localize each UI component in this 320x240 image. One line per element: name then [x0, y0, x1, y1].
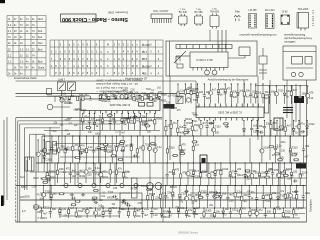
capacitor C302 — [88, 113, 91, 130]
svg-text:2,2u: 2,2u — [128, 92, 133, 95]
resistor R336 — [284, 120, 286, 136]
resistor R440 — [284, 185, 286, 208]
svg-text:T310: T310 — [278, 89, 284, 92]
transistor T450 — [93, 207, 97, 218]
resistor R343 and capacitor C343 — [196, 83, 199, 103]
svg-text:100n: 100n — [305, 192, 311, 195]
resistor R475 and capacitor C475 — [68, 96, 71, 101]
svg-text:VALP: VALP — [33, 177, 39, 180]
svg-text:2,2u: 2,2u — [88, 146, 93, 149]
svg-text:Bod: Bod — [38, 59, 43, 63]
svg-text:470: 470 — [102, 170, 107, 173]
svg-text:4u7: 4u7 — [144, 214, 149, 217]
resistor R521 — [75, 200, 81, 202]
resistor R555 — [280, 172, 286, 174]
resistor R416 and capacitor C416 — [290, 162, 293, 185]
svg-text:L12: L12 — [153, 214, 158, 217]
capacitor C361 — [50, 135, 53, 163]
resistor R551 — [283, 174, 289, 176]
tall filter block — [46, 142, 57, 155]
resistor R372 — [122, 135, 124, 163]
resistor R508 — [291, 154, 297, 156]
capacitor C398 — [166, 162, 169, 185]
capacitor C370 — [111, 135, 114, 163]
svg-text:47u: 47u — [188, 209, 193, 212]
svg-text:1k5: 1k5 — [53, 193, 58, 196]
svg-text:Abgleich nur mit Messsender u.: Abgleich nur mit Messsender u. Zähler — [96, 79, 142, 83]
capacitor C393 — [92, 162, 95, 183]
resistor R505 — [269, 146, 275, 148]
svg-text:T320: T320 — [192, 113, 198, 115]
capacitor C432 — [226, 185, 229, 208]
svg-text:GRUNDIG Service: GRUNDIG Service — [178, 232, 199, 235]
capacitor C541 — [186, 130, 190, 133]
wire horizontal bus lines — [16, 80, 197, 82]
svg-text:T310: T310 — [285, 210, 291, 213]
capacitor C529 — [92, 198, 96, 201]
loudspeaker pair LS1 LS2 — [120, 183, 162, 209]
resistor R422 — [159, 185, 161, 208]
resistor R484 — [141, 96, 143, 101]
svg-text:C35: C35 — [32, 187, 37, 189]
svg-text:2,2u: 2,2u — [61, 208, 66, 211]
capacitor C528 — [126, 204, 130, 207]
capacitor C457 — [150, 207, 153, 218]
test point arrow in block — [174, 51, 186, 68]
svg-text:L12: L12 — [72, 175, 77, 178]
svg-text:Ersatzteilliste Radio: Ersatzteilliste Radio — [14, 76, 37, 80]
capacitor C556 — [293, 180, 297, 183]
svg-text:IC 820 U 1705: IC 820 U 1705 — [196, 58, 213, 62]
capacitor C526 — [121, 201, 125, 204]
capacitor C488 — [133, 154, 137, 157]
svg-text:LM 358: LM 358 — [249, 9, 258, 12]
capacitor C516 — [81, 193, 85, 196]
vertical resistor array — [265, 95, 269, 113]
resistor R406 — [220, 162, 222, 185]
registration mark top-left corner — [0, 0, 5, 3]
resistor R532 — [144, 125, 150, 127]
resistor R380 — [192, 135, 194, 163]
svg-text:Fed: Fed — [38, 35, 43, 39]
resistor R310 — [139, 113, 141, 130]
capacitor C539 — [225, 125, 229, 128]
mains transformer TR1 — [25, 157, 34, 171]
svg-text:220: 220 — [78, 216, 83, 219]
capacitor C335 — [275, 120, 278, 136]
resistor R309 — [134, 113, 136, 130]
capacitor C445 — [49, 207, 52, 218]
svg-text:BF324: BF324 — [131, 189, 138, 191]
svg-text:Schaltplan: Schaltplan — [309, 199, 313, 212]
svg-text:220V: 220V — [20, 196, 26, 199]
svg-text:von Bestückungsseite gesehen: von Bestückungsseite gesehen — [239, 33, 277, 37]
svg-text:4n7: 4n7 — [293, 89, 298, 92]
capacitor C436 — [255, 185, 258, 208]
svg-text:47u: 47u — [118, 168, 123, 171]
svg-text:L12: L12 — [253, 177, 258, 180]
resistor R506 — [293, 159, 299, 161]
resistor R519 — [71, 204, 77, 206]
resistor R438 — [270, 185, 272, 208]
svg-text:C312: C312 — [222, 168, 229, 171]
transistor T318 — [131, 94, 135, 99]
transistor T404 — [207, 162, 211, 185]
svg-text:1k5: 1k5 — [222, 192, 227, 195]
svg-text:Filter: Filter — [235, 11, 241, 14]
capacitor C311 — [145, 113, 148, 130]
svg-text:100n: 100n — [95, 133, 101, 135]
svg-text:100n: 100n — [180, 207, 186, 210]
svg-text:47u: 47u — [258, 209, 263, 212]
right caption text — [284, 33, 312, 44]
svg-text:T310: T310 — [215, 126, 221, 129]
diode D386 — [43, 139, 46, 172]
svg-text:47u: 47u — [81, 145, 86, 148]
capacitor C408 — [234, 162, 237, 185]
diode D412 — [265, 162, 268, 185]
svg-text:T320: T320 — [73, 110, 79, 112]
connector strip with sockets — [60, 178, 145, 198]
tuning trimmer assembly — [58, 82, 76, 97]
voltage regulator stage — [259, 48, 267, 80]
resistor R350 — [243, 83, 245, 103]
capacitor C474 — [59, 96, 62, 100]
svg-text:M: M — [132, 65, 134, 68]
resistor R473 — [293, 207, 295, 218]
resistor R500 — [79, 149, 85, 151]
resistor R301 — [82, 113, 84, 130]
resistor R490 — [119, 143, 125, 145]
diode D486 — [158, 96, 161, 100]
svg-text:C312: C312 — [309, 123, 316, 126]
resistor R417 — [299, 162, 301, 185]
resistor R362 — [58, 135, 60, 163]
capacitor C358 — [299, 85, 302, 104]
svg-text:R305: R305 — [205, 210, 212, 213]
resistor R513 — [214, 195, 220, 197]
resistor R400 — [180, 162, 182, 185]
svg-text:220: 220 — [179, 96, 184, 99]
transistor T426 — [184, 185, 188, 208]
resistor R463 — [203, 207, 205, 218]
svg-text:4u7: 4u7 — [210, 177, 215, 180]
svg-text:C35: C35 — [138, 203, 143, 205]
wire vertical bus lines — [4, 30, 300, 222]
diode D339 — [306, 120, 309, 136]
diode D458 — [160, 207, 163, 218]
resistor R512 — [146, 189, 152, 191]
resistor R504 — [172, 154, 178, 156]
svg-text:T310: T310 — [111, 207, 117, 210]
resistor R485 — [150, 96, 152, 101]
capacitor C382 — [274, 135, 277, 163]
resistor R427 — [192, 185, 194, 208]
capacitor C549 — [47, 179, 51, 182]
svg-text:2,2: 2,2 — [8, 23, 12, 27]
resistor R498 — [111, 155, 117, 157]
svg-text:470: 470 — [309, 91, 314, 94]
svg-text:Bod: Bod — [38, 47, 43, 51]
resistor R317 — [127, 93, 129, 99]
capacitor C552 — [244, 175, 248, 178]
transistor T360 — [43, 135, 47, 163]
resistor R550 — [42, 181, 48, 183]
svg-text:100n: 100n — [192, 121, 198, 123]
transistor T392 — [84, 162, 88, 183]
svg-text:330: 330 — [91, 117, 96, 120]
dark label T315 — [164, 104, 175, 109]
resistor R425 and capacitor C425 — [178, 185, 181, 208]
transistor T327 — [199, 120, 203, 136]
ceramic filter FT1 — [234, 15, 240, 21]
resistor R407 and capacitor C407 — [229, 162, 232, 185]
resistor R324 — [177, 120, 179, 136]
transistor T394 — [99, 162, 103, 183]
resistor R307 and capacitor C307 — [120, 113, 123, 130]
svg-text:Netz: Netz — [20, 176, 26, 179]
capacitor C423 — [164, 185, 167, 208]
transistor T359 — [306, 85, 310, 104]
resistor R487 — [100, 148, 106, 150]
capacitor C523 — [214, 191, 218, 194]
capacitor C368 — [97, 135, 100, 163]
svg-text:220: 220 — [87, 173, 92, 176]
svg-text:2x 000: 2x 000 — [142, 64, 150, 68]
resistor R323 — [170, 120, 172, 136]
resistor R341 — [184, 83, 186, 103]
capacitor C331 — [250, 120, 253, 136]
resistor R454 — [127, 207, 129, 218]
capacitor C524 — [294, 190, 298, 193]
capacitor C332 — [256, 120, 259, 136]
diode D303 — [93, 113, 96, 130]
resistor R497 — [74, 157, 80, 159]
svg-text:C35: C35 — [166, 103, 171, 105]
svg-text:220: 220 — [229, 200, 234, 203]
transistor T430 — [213, 185, 217, 208]
capacitor C390 — [69, 162, 72, 183]
resistor R312 — [154, 113, 156, 130]
svg-text:C35: C35 — [269, 169, 274, 171]
capacitor C466 — [229, 207, 232, 218]
transistor T381 — [260, 135, 264, 163]
resistor R535 — [107, 114, 113, 116]
resistor R468 — [249, 207, 251, 218]
resistor R348 and capacitor C348 — [230, 83, 233, 103]
diode D356 — [283, 85, 286, 104]
clock module block U820 — [166, 30, 257, 76]
svg-text:L12: L12 — [309, 97, 314, 100]
tuner IC U350 — [81, 99, 160, 114]
resistor R433 — [234, 185, 236, 208]
resistor R369 and capacitor C369 — [104, 135, 107, 163]
capacitor C354 — [268, 85, 271, 104]
svg-text:L12: L12 — [135, 100, 140, 103]
svg-text:2,2: 2,2 — [20, 59, 24, 63]
diode D349 — [237, 83, 240, 103]
resistor R548 — [41, 178, 47, 180]
svg-text:Fed: Fed — [38, 29, 43, 33]
svg-text:470: 470 — [96, 119, 101, 122]
capacitor C510 — [70, 193, 74, 196]
svg-text:IC 350 TDA 4100: IC 350 TDA 4100 — [109, 103, 130, 107]
svg-text:BF324: BF324 — [190, 91, 197, 93]
svg-text:10,7: 10,7 — [142, 50, 148, 54]
svg-text:330: 330 — [293, 171, 298, 174]
svg-text:T310: T310 — [169, 147, 175, 150]
capacitor C435 — [248, 185, 251, 208]
resistor R452 and capacitor C452 — [108, 207, 111, 218]
resistor R365 — [78, 135, 80, 163]
capacitor C518 — [184, 190, 188, 193]
capacitor C319 — [138, 94, 141, 99]
resistor R415 — [283, 162, 285, 185]
svg-text:47u: 47u — [300, 122, 305, 125]
svg-text:1k5: 1k5 — [125, 145, 130, 148]
resistor R353 — [262, 83, 264, 103]
svg-text:R311: R311 — [285, 216, 291, 219]
svg-text:1 1 4 5 2 - 0 1: 1 1 4 5 2 - 0 1 — [311, 9, 315, 26]
svg-text:Tast: Tast — [38, 41, 43, 45]
capacitor C391 — [76, 162, 79, 183]
left feeder wires with corners — [16, 118, 162, 160]
svg-text:C35: C35 — [113, 188, 118, 190]
alignment-frequency table — [50, 40, 163, 76]
resistor R326 — [191, 120, 193, 136]
capacitor C502 — [180, 150, 184, 153]
capacitor C534 — [127, 117, 131, 120]
resistor R403 — [200, 162, 202, 185]
resistor R493 — [118, 158, 124, 160]
resistor R437 and capacitor C437 — [262, 185, 265, 208]
IC package outline U810 — [210, 14, 219, 29]
resistor R308 — [127, 113, 129, 130]
resistor R373 — [130, 135, 132, 163]
resistor R371 — [115, 135, 117, 163]
capacitor C328 — [206, 120, 209, 136]
resistor R363 — [64, 135, 66, 163]
transistor T345 — [208, 83, 212, 103]
svg-text:100n: 100n — [68, 103, 74, 105]
resistor R483 — [133, 96, 135, 101]
svg-text:IC 1035 P MC 1035: IC 1035 P MC 1035 — [218, 111, 242, 115]
svg-text:Skala: Skala — [38, 65, 45, 69]
svg-text:460: 460 — [142, 72, 147, 76]
svg-text:470: 470 — [242, 208, 247, 211]
capacitor C525 — [112, 195, 116, 198]
resistor R304 and capacitor C304 — [101, 113, 104, 130]
svg-text:C305: C305 — [253, 130, 260, 133]
svg-text:TBA 820: TBA 820 — [210, 10, 220, 13]
resistor R462 and capacitor C462 — [193, 207, 196, 218]
resistor R313 — [100, 94, 102, 99]
svg-text:2x 000: 2x 000 — [142, 43, 150, 47]
svg-text:470: 470 — [272, 122, 277, 125]
svg-text:R311: R311 — [237, 174, 243, 177]
svg-text:B 80: B 80 — [283, 11, 289, 14]
schematic frame left border — [16, 118, 25, 222]
resistor R447 — [68, 207, 70, 218]
svg-text:470: 470 — [66, 168, 71, 171]
resistor R515 — [93, 189, 99, 191]
svg-text:TDA 2006: TDA 2006 — [298, 8, 309, 11]
transistor T377 — [153, 135, 157, 163]
svg-text:Anschlussbelegung der Baustein: Anschlussbelegung der Bausteine — [208, 77, 249, 81]
transistor T376 — [147, 135, 151, 163]
svg-text:R311: R311 — [79, 175, 85, 178]
capacitor C496 — [64, 148, 68, 151]
svg-text:1k5: 1k5 — [199, 91, 204, 94]
svg-text:4n7: 4n7 — [202, 122, 207, 125]
svg-text:4n7: 4n7 — [195, 144, 200, 147]
svg-text:DIG. COUNT: DIG. COUNT — [153, 9, 169, 13]
svg-text:47u: 47u — [84, 115, 89, 118]
diode D481 — [115, 96, 118, 100]
resistor R388 — [56, 162, 58, 183]
resistor R480 and capacitor C480 — [107, 96, 110, 101]
resistor R421 — [151, 185, 153, 208]
capacitor C494 — [79, 152, 83, 155]
capacitor C456 — [141, 207, 144, 218]
diode D431 — [219, 185, 222, 208]
svg-text:T320: T320 — [108, 192, 114, 194]
resistor R357 — [290, 85, 292, 104]
capacitor C533 — [133, 115, 137, 118]
transistor T700 — [33, 204, 38, 209]
striped label block — [283, 108, 293, 113]
capacitor C344 — [203, 83, 206, 103]
svg-text:47u: 47u — [84, 94, 89, 97]
capacitor C453 — [118, 207, 121, 218]
relay box inner — [202, 158, 206, 163]
RF input stage transistors — [47, 89, 91, 110]
svg-text:BC 558: BC 558 — [195, 11, 204, 14]
transistor T469 — [255, 207, 259, 218]
svg-text:47u: 47u — [67, 146, 72, 149]
resistor R547 — [45, 176, 51, 178]
svg-text:1k5: 1k5 — [257, 91, 262, 94]
resistor R455 — [134, 207, 136, 218]
resistor R464 — [213, 207, 215, 218]
svg-text:330: 330 — [243, 194, 248, 197]
svg-text:Halbleiter: Halbleiter — [284, 40, 295, 44]
capacitor C536 — [124, 117, 128, 120]
fold mark left edge — [1, 196, 4, 207]
capacitor C540 — [209, 122, 213, 125]
svg-text:T 30x: T 30x — [196, 9, 202, 11]
svg-text:2,2u: 2,2u — [95, 167, 100, 170]
resistor R477 — [82, 96, 84, 100]
capacitor C492 — [120, 149, 124, 152]
svg-text:T310: T310 — [45, 190, 51, 193]
svg-text:C35: C35 — [281, 151, 286, 153]
resistor R451 and capacitor C451 — [102, 207, 105, 218]
resistor R411 and capacitor C411 — [258, 162, 261, 185]
svg-text:T320: T320 — [80, 122, 86, 124]
svg-text:100n: 100n — [173, 95, 179, 97]
resistor R467 — [239, 207, 241, 218]
svg-text:Stereo - Radio - Clock 900: Stereo - Radio - Clock 900 — [62, 16, 128, 22]
svg-text:2,2u: 2,2u — [157, 146, 162, 149]
resistor R346 and capacitor C346 — [217, 83, 220, 103]
capacitor C530 — [94, 201, 98, 204]
svg-text:R305: R305 — [144, 94, 151, 97]
svg-text:Dezember 1988: Dezember 1988 — [108, 11, 128, 15]
resistor R396 — [115, 162, 117, 183]
capacitor C429 — [206, 185, 209, 208]
transistor T410 — [250, 162, 254, 185]
